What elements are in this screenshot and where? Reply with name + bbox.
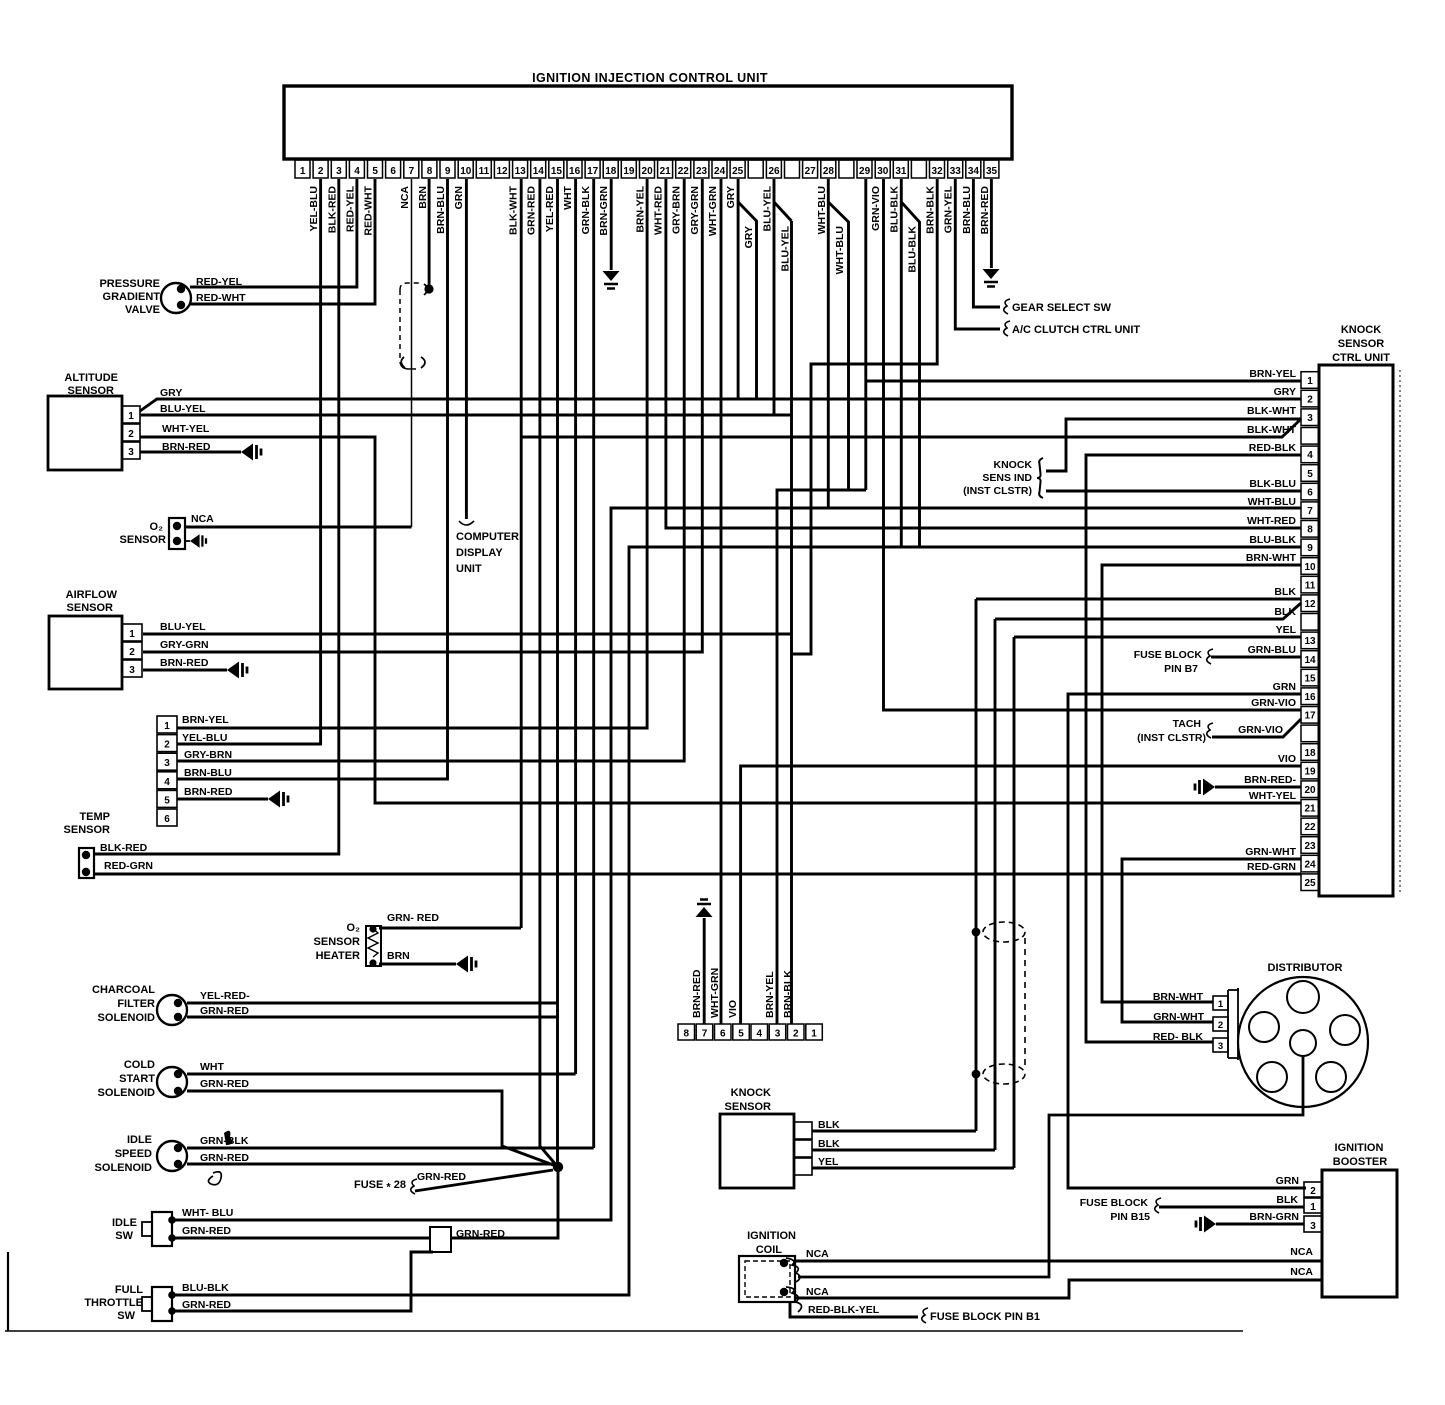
airflow sensor box bbox=[49, 616, 122, 689]
svg-text:3: 3 bbox=[129, 665, 135, 676]
svg-text:YEL-RED-: YEL-RED- bbox=[200, 990, 250, 1002]
svg-text:BLK-WHT: BLK-WHT bbox=[508, 185, 520, 235]
svg-text:BLK-RED: BLK-RED bbox=[100, 842, 148, 854]
svg-text:SENSOR: SENSOR bbox=[64, 824, 111, 836]
svg-text:YEL-BLU: YEL-BLU bbox=[308, 186, 320, 232]
svg-text:NCA: NCA bbox=[399, 186, 411, 209]
svg-text:O₂: O₂ bbox=[150, 521, 164, 533]
svg-text:BRN-WHT: BRN-WHT bbox=[1246, 552, 1297, 564]
charcoal filter solenoid body bbox=[157, 995, 187, 1025]
svg-text:FULL: FULL bbox=[115, 1284, 143, 1296]
wire BRN-RED altitude to ground bbox=[140, 451, 241, 454]
svg-text:19: 19 bbox=[623, 166, 635, 177]
svg-text:WHT: WHT bbox=[562, 185, 574, 209]
svg-text:2: 2 bbox=[164, 740, 170, 751]
wire GRN-RED fuse28 to splice dot bbox=[415, 1170, 553, 1191]
svg-text:GRN-VIO: GRN-VIO bbox=[870, 186, 882, 231]
ground ICU pin18 bbox=[603, 271, 620, 281]
svg-text:GRN: GRN bbox=[1273, 681, 1296, 693]
wire GRY ICU pin25 pair bbox=[737, 179, 740, 399]
computer display unit curl bbox=[459, 521, 474, 525]
svg-text:1: 1 bbox=[811, 1029, 817, 1040]
svg-text:16: 16 bbox=[569, 166, 581, 177]
ICU shifted pair labels bbox=[743, 225, 918, 274]
wire RED-BLK-YEL to fuse block B1 bbox=[790, 1303, 918, 1317]
wire BRN-RED airflow to ground bbox=[143, 669, 227, 672]
svg-text:GRY: GRY bbox=[160, 387, 182, 399]
svg-text:BRN-YEL: BRN-YEL bbox=[634, 185, 646, 232]
svg-text:8: 8 bbox=[1307, 525, 1313, 536]
svg-text:1: 1 bbox=[128, 411, 134, 422]
wire YEL-BLU conn2 to ICU pin2 bbox=[177, 179, 321, 744]
svg-text:2: 2 bbox=[793, 1029, 799, 1040]
svg-text:A/C CLUTCH CTRL UNIT: A/C CLUTCH CTRL UNIT bbox=[1012, 324, 1140, 336]
wire BRN-YEL conn1 to ICU pin20 bbox=[177, 179, 647, 728]
svg-text:YEL: YEL bbox=[818, 1156, 839, 1168]
wire BRN-RED ICU pin35 to ground bbox=[990, 179, 993, 268]
svg-text:GRY-GRN: GRY-GRN bbox=[689, 186, 701, 235]
svg-text:BOOSTER: BOOSTER bbox=[1333, 1156, 1387, 1168]
wire BRN-BLK ICU pin32 bbox=[792, 179, 938, 654]
ignition injection control unit U1 box bbox=[284, 86, 1012, 159]
svg-text:GRN-WHT: GRN-WHT bbox=[1245, 846, 1296, 858]
svg-text:GRN-VIO: GRN-VIO bbox=[1251, 697, 1296, 709]
svg-text:NCA: NCA bbox=[1290, 1266, 1313, 1278]
svg-text:PIN B15: PIN B15 bbox=[1110, 1211, 1150, 1223]
svg-text:12: 12 bbox=[1304, 599, 1316, 610]
svg-text:BRN-RED: BRN-RED bbox=[691, 969, 703, 1018]
wire BRN-YEL 8pin conn3 up bbox=[777, 490, 866, 1024]
svg-text:BLU-BLK: BLU-BLK bbox=[182, 1282, 229, 1294]
svg-text:12: 12 bbox=[496, 166, 508, 177]
svg-text:SENS IND: SENS IND bbox=[982, 472, 1032, 484]
svg-text:FILTER: FILTER bbox=[117, 998, 155, 1010]
svg-text:5: 5 bbox=[1307, 469, 1313, 480]
distributor connector boxes bbox=[1213, 996, 1228, 1010]
svg-text:4: 4 bbox=[354, 166, 360, 177]
wire WHT-BLU ICU pin28 pair bbox=[827, 179, 830, 508]
wire GRN-WHT knock ctrl pin24 to distributor pin2 bbox=[1122, 859, 1301, 1022]
connector X2 8-pin bbox=[678, 1024, 822, 1040]
wire BLK-RED temp to ICU pin3 bbox=[93, 179, 339, 854]
svg-text:3: 3 bbox=[1310, 1221, 1316, 1232]
svg-text:FUSE BLOCK PIN B1: FUSE BLOCK PIN B1 bbox=[930, 1311, 1040, 1323]
svg-text:WHT-YEL: WHT-YEL bbox=[162, 423, 210, 435]
wire RED-GRN temp to knock ctrl pin25 bbox=[93, 873, 1301, 876]
svg-text:8: 8 bbox=[684, 1029, 690, 1040]
wire NCA coil to booster bbox=[796, 1260, 1322, 1263]
svg-text:PIN B7: PIN B7 bbox=[1164, 663, 1198, 675]
svg-text:IDLE: IDLE bbox=[112, 1217, 137, 1229]
O2 heater resistor bbox=[366, 926, 381, 966]
svg-text:GRN-BLK: GRN-BLK bbox=[580, 186, 592, 235]
svg-text:1: 1 bbox=[129, 629, 135, 640]
wire splice dot down to GRN-RED splice box bbox=[450, 1167, 558, 1238]
svg-text:BLU-YEL: BLU-YEL bbox=[160, 621, 206, 633]
svg-text:WHT-GRN: WHT-GRN bbox=[707, 186, 719, 236]
wire ICU pin29 down bbox=[864, 179, 867, 490]
svg-text:VIO: VIO bbox=[1278, 753, 1296, 765]
svg-text:35: 35 bbox=[986, 166, 998, 177]
wire WHT-RED ICU pin21 to knock ctrl pin8 bbox=[666, 179, 1301, 528]
svg-text:IGNITION: IGNITION bbox=[747, 1230, 796, 1242]
svg-text:GRY: GRY bbox=[1274, 386, 1296, 398]
ground altitude BRN-RED bbox=[241, 444, 253, 461]
svg-text:YEL: YEL bbox=[1276, 624, 1297, 636]
svg-text:28: 28 bbox=[823, 166, 835, 177]
svg-text:BRN-BLK: BRN-BLK bbox=[925, 186, 937, 234]
svg-text:GRN-RED: GRN-RED bbox=[456, 1228, 505, 1240]
svg-text:34: 34 bbox=[968, 166, 980, 177]
svg-text:BLK-WHT: BLK-WHT bbox=[1247, 424, 1297, 436]
svg-text:6: 6 bbox=[720, 1029, 726, 1040]
hook AC clutch bbox=[1004, 321, 1010, 336]
svg-text:UNIT: UNIT bbox=[456, 563, 482, 575]
svg-text:VALVE: VALVE bbox=[125, 304, 160, 316]
wire GRN-VIO ICU pin30 to knock ctrl pin17 bbox=[884, 179, 1302, 710]
svg-text:2: 2 bbox=[129, 647, 135, 658]
svg-text:BRN-BLU: BRN-BLU bbox=[961, 186, 973, 234]
svg-text:18: 18 bbox=[605, 166, 617, 177]
svg-text:WHT-RED: WHT-RED bbox=[1247, 515, 1296, 527]
svg-text:3: 3 bbox=[128, 447, 134, 458]
svg-text:GRN: GRN bbox=[1276, 1175, 1299, 1187]
knock sensor ctrl unit box bbox=[1319, 365, 1393, 896]
cold start solenoid body bbox=[157, 1067, 187, 1097]
svg-text:2: 2 bbox=[128, 429, 134, 440]
wire GRN-RED cold start to splice dot bbox=[187, 1091, 556, 1166]
svg-text:GRN: GRN bbox=[453, 186, 465, 209]
wire VIO 8pin conn5 to knock ctrl pin19 bbox=[741, 766, 1301, 1024]
ignition booster box bbox=[1322, 1170, 1397, 1297]
svg-text:GRN-RED: GRN-RED bbox=[182, 1299, 231, 1311]
wire BRN-RED conn5 to ground bbox=[177, 798, 268, 801]
wire BRN-RED 8pin conn7 to ground bbox=[703, 918, 706, 1024]
wire BRN-GRN ground to booster pin3 bbox=[1216, 1223, 1304, 1226]
wire GRY-GRN airflow to ICU pin23 bbox=[143, 179, 702, 652]
wire BRN-RED ground to pin20 bbox=[1215, 786, 1301, 789]
svg-text:7: 7 bbox=[409, 166, 415, 177]
svg-text:BLK-BLU: BLK-BLU bbox=[1249, 478, 1296, 490]
svg-text:GRN-BLK: GRN-BLK bbox=[200, 1135, 249, 1147]
svg-text:7: 7 bbox=[1307, 506, 1313, 517]
svg-text:BLK: BLK bbox=[818, 1138, 840, 1150]
wire coil to distributor bbox=[798, 1056, 1303, 1277]
svg-text:30: 30 bbox=[877, 166, 889, 177]
svg-text:2: 2 bbox=[1218, 1020, 1223, 1031]
svg-text:2: 2 bbox=[1310, 1186, 1316, 1197]
wire NCA ICU pin7 down bbox=[411, 179, 413, 527]
svg-text:BRN-WHT: BRN-WHT bbox=[1153, 991, 1204, 1003]
svg-text:SENSOR: SENSOR bbox=[120, 534, 167, 546]
svg-text:BRN-YEL: BRN-YEL bbox=[1249, 368, 1296, 380]
svg-text:25: 25 bbox=[1304, 878, 1316, 889]
ground airflow BRN-RED bbox=[227, 662, 239, 679]
wire GRN-RED heater to ICU pin13 bbox=[379, 927, 521, 930]
ground conn BRN-RED bbox=[268, 791, 280, 808]
wire GRN-RED idle to splice dot bbox=[187, 1163, 556, 1166]
svg-text:BRN-BLK: BRN-BLK bbox=[782, 970, 794, 1018]
connector C1 dashed bbox=[399, 290, 401, 362]
svg-text:BRN-RED-: BRN-RED- bbox=[1244, 774, 1296, 786]
svg-text:RED-GRN: RED-GRN bbox=[104, 860, 153, 872]
knock sensor pins bbox=[794, 1122, 812, 1139]
node GRN-RED splice dot bbox=[553, 1162, 563, 1172]
fuse block B7 brace bbox=[1207, 649, 1213, 664]
wire WHT cold start to ICU pin16 bbox=[187, 1073, 576, 1076]
wire BLU-YEL shifted vertical / BRN-BLK lower run bbox=[790, 221, 793, 1024]
svg-text:GRN-RED: GRN-RED bbox=[526, 186, 538, 235]
svg-text:GRY: GRY bbox=[743, 226, 755, 248]
svg-text:BLK-WHT: BLK-WHT bbox=[1247, 405, 1297, 417]
svg-text:FUSE BLOCK: FUSE BLOCK bbox=[1080, 1197, 1149, 1209]
svg-text:15: 15 bbox=[551, 166, 563, 177]
connector pass-through dashes bbox=[1024, 938, 1026, 1068]
svg-text:DISTRIBUTOR: DISTRIBUTOR bbox=[1268, 962, 1343, 974]
svg-text:6: 6 bbox=[1307, 487, 1313, 498]
wire NCA coil2 to booster bbox=[796, 1280, 1322, 1298]
svg-text:9: 9 bbox=[445, 166, 451, 177]
svg-text:24: 24 bbox=[714, 166, 726, 177]
svg-text:TEMP: TEMP bbox=[79, 811, 110, 823]
wire YEL-RED ICU pin15 to splice dot bbox=[556, 179, 559, 1166]
ground O2 sensor bbox=[185, 540, 190, 542]
svg-text:IDLE: IDLE bbox=[127, 1134, 152, 1146]
svg-text:GEAR SELECT SW: GEAR SELECT SW bbox=[1012, 302, 1112, 314]
svg-text:5: 5 bbox=[372, 166, 378, 177]
svg-text:SENSOR: SENSOR bbox=[314, 936, 361, 948]
svg-text:23: 23 bbox=[1304, 841, 1316, 852]
altitude pin boxes bbox=[122, 406, 140, 423]
svg-text:COMPUTER: COMPUTER bbox=[456, 531, 519, 543]
svg-text:SOLENOID: SOLENOID bbox=[95, 1162, 153, 1174]
altitude sensor box bbox=[48, 396, 122, 470]
svg-text:NCA: NCA bbox=[191, 513, 214, 525]
wire BLK-BLU knock sens ind to pin6 bbox=[1046, 490, 1301, 493]
svg-text:RED-BLK-YEL: RED-BLK-YEL bbox=[808, 1304, 880, 1316]
svg-text:3: 3 bbox=[1307, 413, 1313, 424]
svg-text:20: 20 bbox=[1304, 785, 1316, 796]
wire WHT-YEL altitude to knock ctrl pin21 bbox=[140, 437, 1301, 803]
svg-text:VIO: VIO bbox=[727, 1000, 739, 1018]
svg-text:YEL-RED: YEL-RED bbox=[544, 186, 556, 233]
svg-text:WHT- BLU: WHT- BLU bbox=[182, 1207, 233, 1219]
ground knock ctrl pin20 bbox=[1203, 779, 1215, 796]
svg-text:7: 7 bbox=[702, 1029, 708, 1040]
8pin connector labels bbox=[691, 968, 794, 1018]
wire BLU-YEL ICU pin26 pair bbox=[773, 179, 776, 415]
svg-text:WHT-YEL: WHT-YEL bbox=[1249, 790, 1297, 802]
ignition coil curls bbox=[786, 1258, 800, 1282]
svg-text:GRY-GRN: GRY-GRN bbox=[160, 639, 209, 651]
svg-text:GRY-BRN: GRY-BRN bbox=[184, 749, 232, 761]
svg-text:COLD: COLD bbox=[124, 1059, 155, 1071]
svg-text:RED- BLK: RED- BLK bbox=[1153, 1031, 1204, 1043]
wire knock sens ind to knock ctrl pin3 bbox=[1046, 419, 1301, 471]
svg-text:5: 5 bbox=[164, 795, 170, 806]
svg-text:17: 17 bbox=[587, 166, 599, 177]
svg-text:BLK: BLK bbox=[818, 1119, 840, 1131]
wire BRN-YEL to knock ctrl pin1 bbox=[866, 380, 1301, 383]
wire RED-YEL valve to ICU pin4 bbox=[190, 179, 357, 287]
svg-text:BRN-RED: BRN-RED bbox=[184, 786, 233, 798]
svg-text:BRN-RED: BRN-RED bbox=[979, 186, 991, 235]
svg-text:WHT-BLU: WHT-BLU bbox=[834, 226, 846, 274]
wire BLU-BLK ICU pin31 pair bbox=[900, 179, 903, 547]
idle sw body bbox=[152, 1212, 172, 1246]
svg-text:27: 27 bbox=[805, 166, 817, 177]
svg-text:(INST CLSTR): (INST CLSTR) bbox=[963, 485, 1032, 497]
svg-text:22: 22 bbox=[678, 166, 690, 177]
wire BLU-YEL airflow bbox=[143, 633, 792, 636]
svg-text:BRN-GRN: BRN-GRN bbox=[598, 186, 610, 236]
wire BRN-WHT knock ctrl pin10 to distributor pin1 bbox=[1102, 565, 1301, 1002]
svg-text:WHT-BLU: WHT-BLU bbox=[1248, 496, 1296, 508]
knock ctrl pin column bbox=[1301, 372, 1319, 891]
svg-text:1: 1 bbox=[1218, 999, 1224, 1010]
svg-text:3: 3 bbox=[164, 758, 170, 769]
bottom rule bbox=[5, 1330, 1243, 1332]
svg-text:GRN-RED: GRN-RED bbox=[182, 1225, 231, 1237]
svg-text:GRN-VIO: GRN-VIO bbox=[1238, 724, 1283, 736]
svg-text:SOLENOID: SOLENOID bbox=[98, 1012, 156, 1024]
svg-text:4: 4 bbox=[757, 1029, 763, 1040]
svg-text:BLU-YEL: BLU-YEL bbox=[761, 185, 773, 231]
svg-text:GRN-RED: GRN-RED bbox=[200, 1152, 249, 1164]
svg-text:6: 6 bbox=[164, 814, 170, 825]
connector pass-through lower bbox=[983, 1064, 1025, 1084]
svg-text:THROTTLE: THROTTLE bbox=[84, 1297, 143, 1309]
svg-text:26: 26 bbox=[768, 166, 780, 177]
svg-text:GRN-BLU: GRN-BLU bbox=[1248, 644, 1296, 656]
knock ctrl box scan edge bbox=[1399, 370, 1401, 893]
svg-text:17: 17 bbox=[1304, 711, 1316, 722]
svg-text:GRN- RED: GRN- RED bbox=[387, 912, 439, 924]
svg-text:YEL-BLU: YEL-BLU bbox=[182, 732, 228, 744]
svg-text:GRADIENT: GRADIENT bbox=[103, 291, 161, 303]
svg-text:9: 9 bbox=[1307, 543, 1313, 554]
wire BLK knock sensor to ctrl pin12 bbox=[812, 599, 1301, 1131]
ignition coil body bbox=[739, 1256, 795, 1302]
svg-text:SENSOR: SENSOR bbox=[725, 1101, 772, 1113]
svg-text:SPEED: SPEED bbox=[115, 1148, 152, 1160]
svg-text:SENSOR: SENSOR bbox=[67, 602, 114, 614]
svg-text:PRESSURE: PRESSURE bbox=[99, 278, 160, 290]
svg-text:24: 24 bbox=[1304, 859, 1316, 870]
svg-text:BLK-RED: BLK-RED bbox=[326, 186, 338, 234]
idle speed solenoid body bbox=[157, 1141, 187, 1171]
svg-text:WHT-GRN: WHT-GRN bbox=[709, 968, 721, 1018]
svg-text:BRN: BRN bbox=[387, 950, 410, 962]
svg-text:AIRFLOW: AIRFLOW bbox=[66, 589, 118, 601]
svg-text:RED-WHT: RED-WHT bbox=[196, 292, 246, 304]
wire RED-WHT valve to ICU pin5 bbox=[190, 179, 375, 304]
svg-text:COIL: COIL bbox=[756, 1244, 783, 1256]
svg-text:GRY-BRN: GRY-BRN bbox=[671, 186, 683, 234]
svg-text:4: 4 bbox=[164, 777, 170, 788]
wire GRN-YEL ICU pin33 to AC clutch bbox=[955, 179, 1000, 329]
knock sensor box bbox=[720, 1114, 794, 1188]
svg-text:START: START bbox=[119, 1073, 155, 1085]
svg-text:22: 22 bbox=[1304, 822, 1316, 833]
svg-text:1: 1 bbox=[164, 721, 170, 732]
wire GRN ICU pin10 to computer display unit bbox=[465, 179, 468, 519]
svg-text:NCA: NCA bbox=[806, 1286, 829, 1298]
distributor holes bbox=[1287, 981, 1319, 1013]
wire GRY altitude to knock ctrl pin2 bbox=[140, 399, 1301, 411]
wire BLK knock sensor to ctrl pin12 diag bbox=[812, 603, 1301, 1150]
svg-text:RED-BLK: RED-BLK bbox=[1249, 442, 1297, 454]
wire GRN-BLU fuse block to pin14 bbox=[1211, 656, 1301, 659]
svg-text:IGNITION INJECTION CONTROL UNI: IGNITION INJECTION CONTROL UNIT bbox=[532, 71, 768, 85]
svg-text:10: 10 bbox=[1304, 562, 1316, 573]
wire GRN-RED ICU pin14 to splice dot bbox=[540, 179, 557, 1166]
wire BRN-BLU conn4 to ICU pin9 bbox=[177, 179, 448, 779]
svg-text:11: 11 bbox=[1305, 580, 1316, 591]
svg-text:BRN: BRN bbox=[417, 186, 429, 209]
svg-text:WHT: WHT bbox=[200, 1061, 224, 1073]
pressure gradient valve body bbox=[161, 283, 191, 313]
svg-text:GRY: GRY bbox=[725, 186, 737, 208]
wire GRN knock ctrl pin16 to ignition booster pin2 bbox=[1068, 694, 1306, 1188]
svg-text:GRN-YEL: GRN-YEL bbox=[943, 185, 955, 233]
hook fuse block B1 bbox=[922, 1308, 928, 1323]
ground O2 heater bbox=[456, 956, 468, 973]
wire GRN-VIO tach to pin17 diag bbox=[1212, 719, 1301, 737]
distributor connector bracket bbox=[1228, 988, 1238, 1058]
svg-text:BRN-YEL: BRN-YEL bbox=[182, 714, 229, 726]
tach brace bbox=[1207, 723, 1213, 738]
svg-text:6: 6 bbox=[390, 166, 396, 177]
svg-text:WHT-RED: WHT-RED bbox=[653, 186, 665, 235]
svg-text:RED-GRN: RED-GRN bbox=[1247, 861, 1296, 873]
airflow pin boxes bbox=[122, 624, 142, 641]
svg-text:BRN-BLU: BRN-BLU bbox=[184, 767, 232, 779]
svg-text:29: 29 bbox=[859, 166, 871, 177]
distributor body bbox=[1238, 977, 1368, 1107]
svg-text:SOLENOID: SOLENOID bbox=[98, 1087, 156, 1099]
ground booster BRN-GRN bbox=[1204, 1216, 1216, 1233]
svg-text:RED-YEL: RED-YEL bbox=[344, 185, 356, 232]
wire GRN-BLK ICU pin17 to idle solenoid bbox=[592, 179, 595, 1148]
svg-text:KNOCK: KNOCK bbox=[1341, 324, 1381, 336]
fuse block B15 hook bbox=[1155, 1198, 1161, 1213]
svg-text:GRN-RED: GRN-RED bbox=[417, 1171, 466, 1183]
wire GRN-RED charcoal bbox=[187, 1016, 558, 1019]
wire YEL-RED charcoal to ICU pin15 bbox=[187, 1002, 558, 1005]
svg-text:ALTITUDE: ALTITUDE bbox=[64, 372, 118, 384]
wire GRN-RED idle sw to splice box bbox=[174, 1237, 430, 1240]
svg-text:25: 25 bbox=[732, 166, 744, 177]
svg-text:32: 32 bbox=[932, 166, 944, 177]
splice box GRN-RED bbox=[430, 1227, 451, 1252]
wire BRN ICU pin8 stub bbox=[428, 179, 431, 287]
svg-text:13: 13 bbox=[1304, 636, 1316, 647]
svg-text:13: 13 bbox=[515, 166, 527, 177]
ground ICU pin35 bbox=[983, 269, 1000, 279]
wire RED-BLK knock ctrl pin4 to distributor pin3 bbox=[1086, 455, 1301, 1042]
svg-text:23: 23 bbox=[696, 166, 708, 177]
wire WHT ICU pin16 to cold start bbox=[574, 179, 577, 1074]
wire NCA O2 sensor to ICU pin7 bbox=[186, 526, 412, 529]
svg-text:FUSE BLOCK: FUSE BLOCK bbox=[1134, 649, 1203, 661]
svg-text:3: 3 bbox=[336, 166, 342, 177]
O2 sensor connector bbox=[169, 518, 185, 549]
wire GRY-BRN conn3 to ICU pin22 bbox=[177, 179, 684, 761]
svg-text:5: 5 bbox=[738, 1029, 744, 1040]
svg-text:BRN-YEL: BRN-YEL bbox=[764, 971, 776, 1018]
svg-text:WHT-BLU: WHT-BLU bbox=[816, 186, 828, 234]
